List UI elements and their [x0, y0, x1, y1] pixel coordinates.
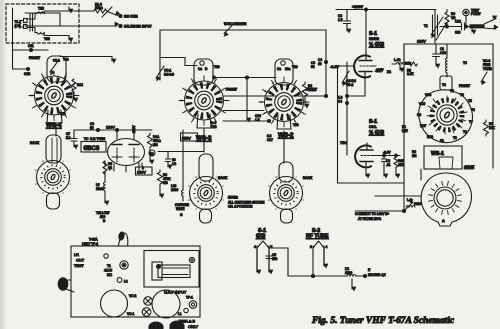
svg-text:ONLY TP-1: ONLY TP-1 — [82, 242, 98, 246]
inductor L-12 — [392, 63, 405, 71]
svg-text:TO: TO — [84, 137, 89, 141]
svg-text:150: 150 — [272, 257, 278, 261]
svg-text:56: 56 — [90, 126, 94, 130]
inductor L-9 — [404, 202, 415, 211]
svg-text:T2B: T2B — [38, 7, 44, 11]
svg-text:VC4: VC4 — [425, 93, 431, 97]
svg-text:1000: 1000 — [171, 188, 178, 192]
wire — [203, 128, 205, 152]
svg-text:(C6): (C6) — [15, 24, 21, 28]
svg-text:1000: 1000 — [345, 271, 352, 275]
hole L2 — [117, 278, 122, 283]
coax connector — [58, 278, 74, 292]
wire WS-1 box to wafer — [420, 169, 422, 180]
inner loop wire — [25, 13, 60, 26]
svg-text:+20V: +20V — [376, 68, 384, 72]
svg-text:C12: C12 — [455, 20, 461, 24]
svg-text:T3: T3 — [460, 93, 464, 97]
svg-text:TEST: TEST — [74, 264, 84, 268]
svg-text:FRONT: FRONT — [29, 56, 40, 60]
hole — [104, 254, 108, 258]
svg-text:0.5-3.0: 0.5-3.0 — [164, 73, 174, 77]
resistor R3A — [148, 133, 153, 162]
pin 12 — [149, 150, 155, 156]
svg-text:T10: T10 — [292, 65, 298, 69]
svg-text:C8-1: C8-1 — [53, 59, 60, 63]
svg-text:I.F.: I.F. — [74, 253, 79, 257]
svg-text:C1B: C1B — [24, 72, 30, 76]
svg-text:T9: T9 — [453, 136, 457, 140]
svg-text:680: 680 — [455, 31, 461, 35]
svg-text:.01: .01 — [386, 163, 391, 167]
wire grid rail — [213, 77, 276, 79]
svg-text:T16: T16 — [214, 65, 220, 69]
svg-text:BACK: BACK — [218, 176, 228, 180]
ground — [471, 27, 473, 33]
svg-text:C6: C6 — [172, 162, 176, 166]
svg-text:WIRE: WIRE — [176, 207, 184, 211]
svg-text:POINT: POINT — [471, 12, 481, 16]
UHF connector — [152, 262, 190, 280]
capacitor C7 — [71, 130, 77, 147]
trimmer VC-1 — [156, 66, 164, 78]
svg-text:WS-1: WS-1 — [431, 151, 444, 157]
svg-text:4: 4 — [326, 245, 328, 249]
capacitor C6a — [166, 152, 171, 167]
svg-text:AT FILTER EY-3: AT FILTER EY-3 — [358, 217, 381, 221]
inductor L5 — [104, 172, 106, 203]
svg-text:T29: T29 — [60, 112, 66, 116]
svg-text:75V: 75V — [340, 141, 347, 145]
svg-text:6X8: 6X8 — [256, 234, 265, 240]
rotary switch WS-4 — [29, 56, 79, 123]
capacitor C13 — [433, 44, 440, 66]
svg-text:R12: R12 — [77, 83, 83, 87]
wire — [223, 95, 326, 97]
svg-text:T4: T4 — [442, 83, 446, 87]
WS-1 spoke labels — [417, 83, 475, 143]
svg-text:5.6: 5.6 — [66, 136, 71, 140]
svg-text:130V: 130V — [137, 171, 146, 175]
resistor R8 — [407, 62, 418, 66]
oscillator enclosure — [404, 44, 493, 168]
wire — [60, 10, 94, 12]
svg-text:X2: X2 — [387, 70, 391, 74]
svg-text:CH. 2 POSITION: CH. 2 POSITION — [228, 205, 253, 209]
svg-text:WS-2: WS-2 — [278, 132, 294, 139]
svg-text:VC5: VC5 — [419, 102, 425, 106]
svg-text:T3: T3 — [463, 61, 467, 65]
svg-text:TUNE: TUNE — [483, 67, 492, 71]
rotary switch wafer right (back) — [421, 173, 471, 226]
svg-text:4: 4 — [254, 245, 256, 249]
svg-text:NOTE:: NOTE: — [228, 196, 238, 200]
svg-text:C6: C6 — [417, 113, 421, 117]
svg-text:1.5: 1.5 — [338, 18, 343, 22]
trimmer on WS-4 — [50, 61, 58, 72]
wire — [223, 120, 269, 122]
tube V3 6BC8 — [108, 130, 145, 172]
resistor R1-3 — [94, 7, 118, 17]
coax stub — [470, 25, 484, 28]
svg-text:8.2K: 8.2K — [407, 72, 414, 76]
wire — [337, 66, 339, 183]
capacitor C2 — [382, 156, 387, 177]
svg-text:T2: T2 — [450, 89, 454, 93]
svg-text:T8: T8 — [463, 130, 467, 134]
wire balanced input — [60, 25, 117, 27]
wire T3 to WS-1 — [446, 44, 448, 58]
svg-text:FRONT: FRONT — [226, 88, 237, 92]
wire to L'1 — [269, 248, 347, 276]
test point TP — [463, 9, 469, 15]
svg-text:20K: 20K — [398, 163, 405, 167]
svg-text:3: 3 — [310, 245, 312, 249]
svg-text:6800: 6800 — [414, 202, 421, 206]
svg-text:T7: T7 — [469, 120, 473, 124]
svg-text:BACK: BACK — [464, 166, 474, 170]
svg-text:VC-2: VC-2 — [129, 294, 136, 298]
svg-text:C13: C13 — [440, 51, 446, 55]
switch fork S-2 — [313, 241, 324, 276]
scanner left gray strip — [0, 0, 3, 329]
svg-text:FRONT: FRONT — [459, 84, 470, 88]
resistor R1-2 — [72, 79, 76, 100]
trimmer W-RC DIMMER — [224, 25, 233, 34]
rotary switch S wafer left — [35, 135, 72, 209]
hole — [189, 257, 194, 262]
svg-text:TP-1: TP-1 — [186, 296, 193, 300]
svg-text:BACK: BACK — [30, 141, 40, 145]
label 130V box — [136, 167, 153, 175]
svg-text:300 OHM: 300 OHM — [124, 15, 138, 19]
rotary switch wafer mid2 — [268, 162, 305, 223]
svg-text:E: E — [368, 268, 370, 272]
svg-text:CONNECT TO 140V B+: CONNECT TO 140V B+ — [355, 212, 389, 216]
svg-text:16: 16 — [318, 62, 322, 66]
resistor R6 — [445, 10, 449, 27]
rotary switch wafer mid1 — [188, 154, 225, 223]
terminal B on WS-2 neck — [281, 61, 285, 65]
svg-text:133V: 133V — [417, 40, 426, 44]
svg-text:RF TUBE: RF TUBE — [306, 234, 329, 240]
capacitor C3 — [344, 10, 351, 32]
svg-text:L2: L2 — [124, 280, 128, 284]
wire 255V rail — [160, 58, 197, 66]
svg-text:6BC8: 6BC8 — [84, 145, 100, 152]
svg-text:+135V: +135V — [352, 5, 364, 9]
transformer T1 (converter output) — [431, 10, 446, 44]
wire plate WS-4 — [60, 56, 112, 58]
svg-text:½ 6X8: ½ 6X8 — [369, 41, 384, 48]
resistor R2 — [303, 82, 308, 106]
inductor L10 — [182, 130, 184, 201]
svg-text:45.75: 45.75 — [104, 269, 112, 273]
svg-text:OUT: OUT — [76, 259, 85, 263]
wire — [60, 36, 69, 41]
trimmer VC-2 — [342, 71, 349, 83]
inductor L'1 — [347, 275, 367, 290]
svg-text:12: 12 — [150, 152, 154, 156]
transformer T1 screw — [120, 261, 128, 269]
wire to mixer — [365, 10, 367, 56]
wire RC dimmer rail — [160, 30, 326, 97]
svg-text:T3B: T3B — [44, 37, 50, 41]
dashed enclosure (antenna balun) — [6, 4, 79, 43]
svg-text:Fig. 5. Tuner VHF T-67A Schem: Fig. 5. Tuner VHF T-67A Schematic — [311, 316, 455, 326]
capacitor C12 — [440, 23, 480, 30]
box WS-1 — [424, 146, 462, 169]
wire WS-4 tab to S wafer — [55, 124, 57, 136]
wire — [13, 8, 29, 69]
svg-text:BALANCED INPUT: BALANCED INPUT — [124, 24, 152, 28]
knobs bottom — [149, 322, 163, 329]
rotary switch WS-1 — [419, 76, 473, 143]
svg-text:BACK: BACK — [303, 176, 313, 180]
jack TP-1 — [189, 301, 197, 309]
+135V rail — [336, 9, 436, 11]
resistor R3 — [158, 170, 163, 196]
chassis drawing — [71, 246, 200, 317]
node C4 junction — [325, 61, 328, 64]
svg-text:MIXER: MIXER — [369, 37, 380, 41]
svg-text:18K: 18K — [489, 126, 496, 130]
svg-text:T16: T16 — [293, 123, 299, 127]
svg-text:T23: T23 — [211, 125, 217, 129]
svg-text:T1: T1 — [424, 24, 428, 28]
svg-text:R10: R10 — [427, 135, 433, 139]
transformer T1A — [20, 11, 60, 36]
svg-text:R.F. TUBE: R.F. TUBE — [90, 137, 105, 141]
svg-text:W-RC DIMMER: W-RC DIMMER — [224, 22, 247, 26]
svg-text:-2.2V: -2.2V — [330, 65, 340, 69]
coil T3 — [446, 58, 448, 77]
svg-text:ONLY: ONLY — [188, 325, 199, 329]
svg-text:Cn: Cn — [277, 67, 281, 71]
rotary switch WS-3 — [179, 59, 229, 128]
svg-text:T-67A: T-67A — [89, 238, 98, 242]
svg-text:180Ω: 180Ω — [95, 6, 103, 10]
wire plate rail 130V — [74, 129, 152, 131]
svg-text:Cn: Cn — [198, 67, 202, 71]
svg-text:L-12: L-12 — [394, 58, 401, 62]
node 300 OHM — [119, 14, 122, 17]
UHF window — [144, 251, 199, 288]
resistor R11 — [394, 156, 398, 177]
tube V1 mixer — [338, 50, 377, 96]
svg-text:VC7: VC7 — [420, 124, 426, 128]
switch fork S-1 — [257, 241, 272, 272]
svg-text:OSC.: OSC. — [369, 125, 377, 129]
svg-text:56: 56 — [311, 65, 315, 69]
rotary switch WS-2 — [259, 59, 309, 129]
svg-text:C4: C4 — [338, 100, 342, 104]
svg-text:13a: 13a — [285, 67, 291, 71]
resistor R5 — [103, 161, 107, 174]
svg-text:¼W: ¼W — [402, 129, 408, 133]
resistor R7 — [484, 120, 489, 136]
svg-text:A: A — [442, 219, 445, 223]
svg-text:C11: C11 — [28, 44, 34, 48]
svg-text:5%: 5% — [153, 143, 158, 147]
svg-text:VC-1: VC-1 — [127, 312, 134, 316]
svg-text:6R: 6R — [108, 166, 113, 170]
svg-text:T6: T6 — [471, 108, 475, 112]
wire oscillator bus — [403, 44, 405, 211]
svg-text:500Ω: 500Ω — [308, 88, 316, 92]
svg-text:T24: T24 — [63, 58, 69, 62]
tube V2 oscillator — [355, 143, 400, 176]
svg-text:T5: T5 — [468, 99, 472, 103]
wire IF output arrows — [484, 19, 496, 25]
shielded cable loop — [117, 232, 130, 260]
svg-text:MC: MC — [107, 273, 113, 277]
svg-text:L1: L1 — [178, 312, 182, 316]
terminal C on WS-3 neck — [200, 61, 204, 65]
svg-text:½ 6X8: ½ 6X8 — [369, 129, 384, 136]
svg-text:T1: T1 — [107, 264, 111, 268]
svg-text:5%: 5% — [163, 181, 168, 185]
svg-text:WS-4: WS-4 — [46, 122, 62, 129]
svg-text:L-9: L-9 — [407, 198, 412, 202]
svg-text:130V: 130V — [106, 126, 115, 130]
wire — [283, 131, 285, 163]
svg-text:C17: C17 — [267, 138, 273, 142]
svg-text:BROWN 4,5: BROWN 4,5 — [368, 273, 386, 277]
wire — [27, 68, 30, 71]
svg-text:1M: 1M — [412, 154, 417, 158]
svg-text:1000: 1000 — [96, 187, 103, 191]
wire — [375, 195, 421, 197]
socket hole right — [152, 290, 180, 318]
label 255V — [181, 133, 198, 141]
socket hole left — [101, 290, 128, 317]
